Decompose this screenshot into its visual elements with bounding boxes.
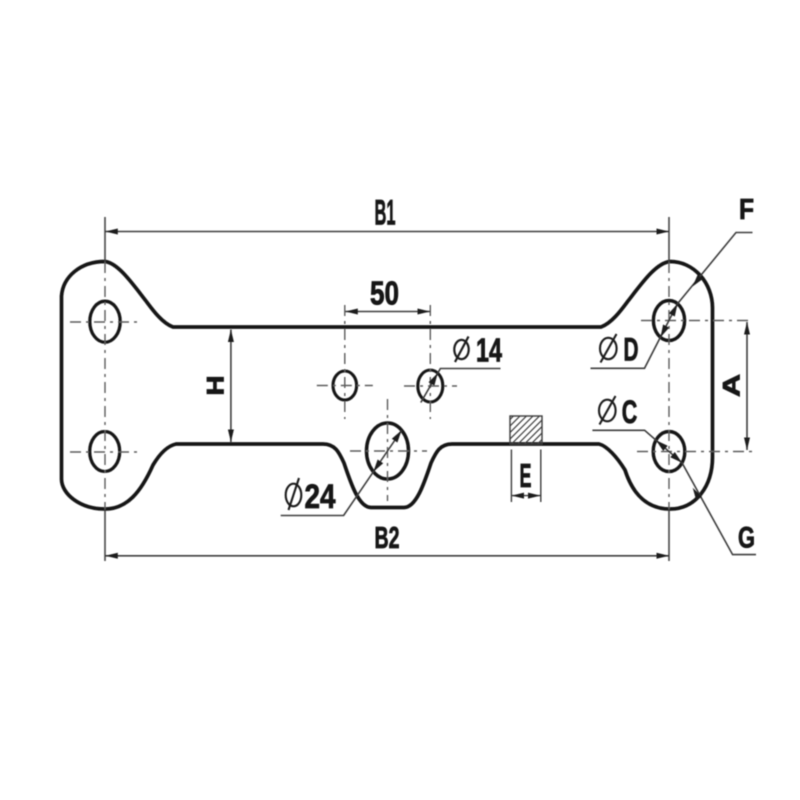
hole right bottom [653, 432, 685, 472]
centerline small hole right horizontal [404, 385, 457, 387]
centerline left lobe vertical [104, 217, 106, 262]
svg-text:E: E [520, 457, 532, 494]
svg-text:D: D [624, 332, 639, 368]
centerline right bottom hole horizontal [637, 451, 752, 453]
svg-text:B1: B1 [375, 194, 396, 233]
hole right top [653, 301, 684, 341]
part outline [62, 262, 713, 510]
centerline small hole left vertical [344, 305, 346, 419]
centerline left top hole horizontal [70, 321, 139, 323]
centerline big hole horizontal [350, 450, 427, 452]
hole left bottom [90, 432, 120, 472]
svg-text:14: 14 [476, 332, 502, 369]
dimension E extension lines [510, 450, 512, 503]
hole small left [333, 371, 357, 400]
label d24 [281, 430, 402, 516]
svg-text:F: F [739, 194, 754, 226]
hatched square E [452, 408, 587, 452]
svg-text:B2: B2 [375, 520, 400, 555]
svg-text:24: 24 [305, 478, 336, 516]
centerline left bottom hole horizontal [70, 451, 139, 453]
dimension A [746, 322, 748, 450]
dimension E arrows [512, 495, 541, 497]
svg-text:A: A [719, 374, 746, 397]
centerline small hole left horizontal [317, 385, 373, 387]
hole big (d24) [367, 423, 409, 479]
label dC [592, 394, 682, 463]
label dD [591, 304, 678, 369]
hole small right (d14) [418, 370, 443, 402]
svg-text:50: 50 [370, 275, 399, 312]
label F [678, 194, 755, 304]
dimension B1 [105, 231, 669, 233]
label d14 [421, 332, 503, 403]
dimension B2 [105, 555, 669, 557]
centerline right top hole horizontal [641, 320, 752, 322]
hole left top [90, 301, 120, 342]
label G [682, 463, 756, 555]
centerline big hole vertical [387, 399, 389, 501]
svg-text:C: C [622, 394, 638, 430]
svg-text:H: H [203, 376, 230, 396]
svg-text:G: G [738, 522, 755, 555]
centerline right lobe vertical [668, 217, 670, 262]
dimension H [230, 330, 232, 443]
centerline small hole right vertical [429, 305, 431, 419]
dimension 50 [345, 311, 430, 313]
